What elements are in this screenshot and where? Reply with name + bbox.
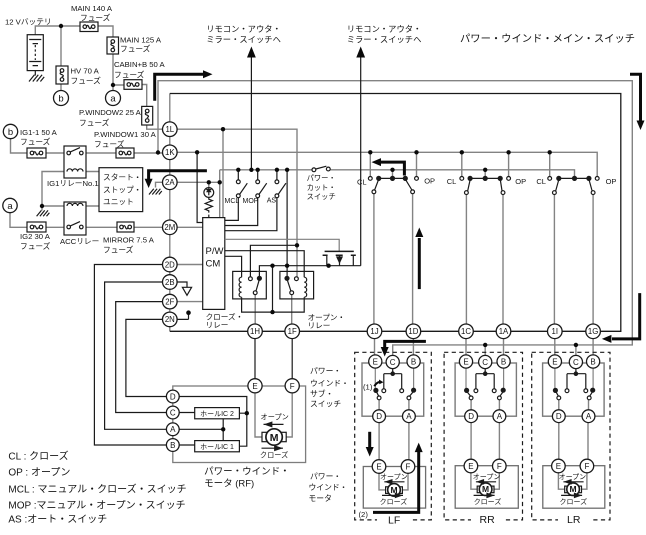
svg-text:F: F (584, 462, 589, 471)
svg-text:OP: OP (424, 177, 435, 186)
svg-text:フューズ: フューズ (71, 76, 102, 86)
svg-text:サブ・: サブ・ (310, 388, 333, 398)
svg-text:モータ: モータ (309, 494, 332, 503)
svg-text:AS :オート・スイッチ: AS :オート・スイッチ (8, 514, 107, 526)
svg-text:ホールIC 1: ホールIC 1 (200, 443, 234, 451)
svg-text:1J: 1J (370, 327, 378, 336)
svg-text:A: A (586, 412, 592, 421)
svg-text:P/W: P/W (206, 246, 224, 257)
svg-text:12 Vバッテリ: 12 Vバッテリ (5, 18, 52, 27)
svg-text:フューズ: フューズ (94, 139, 125, 149)
svg-text:B: B (170, 441, 175, 450)
svg-text:(2): (2) (359, 510, 369, 519)
svg-text:D: D (376, 412, 382, 421)
svg-text:E: E (463, 357, 468, 366)
svg-text:1D: 1D (408, 327, 418, 336)
svg-text:F: F (290, 382, 295, 391)
svg-text:B: B (501, 357, 506, 366)
svg-text:CL: CL (536, 177, 546, 186)
svg-text:HV 70 A: HV 70 A (71, 67, 100, 76)
svg-text:D: D (468, 412, 474, 421)
svg-text:ユニット: ユニット (103, 197, 134, 206)
svg-text:1I: 1I (552, 327, 559, 336)
svg-text:OP: OP (606, 177, 617, 186)
svg-text:MAIN 140 A: MAIN 140 A (71, 4, 113, 13)
svg-text:M: M (270, 432, 279, 444)
svg-text:E: E (376, 462, 381, 471)
svg-text:パワー・: パワー・ (310, 367, 341, 376)
svg-text:ストップ・: ストップ・ (103, 185, 141, 194)
svg-text:a: a (7, 201, 13, 212)
svg-text:2F: 2F (165, 297, 174, 306)
svg-text:オープン: オープン (261, 412, 289, 421)
svg-text:クローズ: クローズ (380, 497, 408, 506)
svg-text:OP: OP (515, 177, 526, 186)
svg-text:フューズ: フューズ (20, 137, 51, 147)
svg-text:リレー: リレー (206, 321, 229, 330)
svg-text:B: B (590, 357, 595, 366)
svg-text:パワー・ウインド・: パワー・ウインド・ (204, 467, 290, 478)
svg-text:LR: LR (567, 514, 581, 526)
svg-text:カット・: カット・ (307, 183, 336, 192)
svg-text:D: D (556, 412, 562, 421)
svg-text:CABIN+B 50 A: CABIN+B 50 A (114, 60, 166, 69)
svg-text:フューズ: フューズ (103, 245, 134, 255)
svg-text:CM: CM (206, 259, 221, 270)
svg-text:CL : クローズ: CL : クローズ (8, 450, 68, 463)
svg-text:パワー・: パワー・ (307, 174, 336, 183)
svg-text:CL: CL (447, 177, 457, 186)
svg-text:1G: 1G (588, 327, 598, 336)
svg-text:2A: 2A (165, 178, 175, 187)
svg-text:E: E (252, 382, 257, 391)
svg-text:RR: RR (480, 514, 496, 526)
svg-text:E: E (556, 462, 561, 471)
svg-text:C: C (170, 408, 176, 417)
svg-text:OP : オープン: OP : オープン (8, 467, 70, 479)
svg-text:スタート・: スタート・ (103, 173, 141, 182)
svg-text:b: b (8, 127, 13, 138)
svg-text:M: M (482, 484, 489, 494)
svg-text:フューズ: フューズ (80, 13, 111, 23)
svg-text:パワー・: パワー・ (310, 472, 341, 481)
svg-text:スイッチ: スイッチ (310, 399, 341, 408)
svg-text:LF: LF (388, 515, 400, 527)
svg-text:A: A (497, 412, 503, 421)
svg-text:C: C (482, 358, 488, 367)
svg-text:MCL : マニュアル・クローズ・スイッチ: MCL : マニュアル・クローズ・スイッチ (8, 483, 186, 496)
svg-text:B: B (411, 357, 416, 366)
svg-text:F: F (497, 462, 502, 471)
svg-text:ミラー・スイッチヘ: ミラー・スイッチヘ (206, 35, 281, 45)
svg-text:MOP :マニュアル・オープン・スイッチ: MOP :マニュアル・オープン・スイッチ (8, 500, 185, 512)
svg-text:1F: 1F (288, 327, 297, 336)
svg-text:フューズ: フューズ (114, 70, 145, 80)
svg-text:E: E (552, 357, 557, 366)
svg-text:A: A (406, 412, 412, 421)
svg-text:フューズ: フューズ (20, 241, 51, 251)
svg-text:クローズ: クローズ (560, 497, 588, 506)
svg-text:オープン: オープン (380, 473, 408, 481)
svg-text:クローズ: クローズ (260, 450, 288, 459)
svg-text:(1): (1) (363, 383, 373, 392)
svg-text:P.WINDOW1 30 A: P.WINDOW1 30 A (94, 130, 157, 139)
svg-text:D: D (170, 392, 176, 401)
svg-text:リレー: リレー (308, 321, 331, 330)
svg-text:2M: 2M (164, 223, 175, 232)
svg-text:IG1-1 50 A: IG1-1 50 A (20, 128, 58, 137)
svg-text:ミラー・スイッチヘ: ミラー・スイッチヘ (347, 35, 422, 45)
svg-text:1L: 1L (165, 125, 174, 134)
svg-text:2N: 2N (165, 315, 175, 324)
svg-text:ウインド・: ウインド・ (310, 379, 349, 388)
svg-text:オープン: オープン (559, 473, 587, 481)
svg-text:ACCリレー: ACCリレー (60, 237, 99, 246)
svg-text:A: A (170, 425, 176, 434)
svg-text:MCL: MCL (225, 198, 240, 205)
svg-text:b: b (58, 94, 63, 105)
svg-text:1C: 1C (461, 327, 471, 336)
svg-text:クローズ: クローズ (474, 497, 502, 506)
svg-text:E: E (373, 357, 378, 366)
svg-text:パワー・ウインド・メイン・スイッチ: パワー・ウインド・メイン・スイッチ (460, 33, 635, 45)
svg-text:F: F (406, 462, 411, 471)
svg-text:リモコン・アウタ・: リモコン・アウタ・ (347, 24, 422, 34)
svg-text:モータ (RF): モータ (RF) (204, 479, 254, 490)
svg-text:M: M (570, 484, 577, 494)
svg-text:C: C (573, 358, 579, 367)
svg-text:IG2 30 A: IG2 30 A (20, 232, 51, 241)
svg-text:1K: 1K (165, 148, 175, 157)
svg-text:MIRROR 7.5 A: MIRROR 7.5 A (103, 236, 155, 245)
svg-text:1H: 1H (250, 327, 260, 336)
svg-text:ホールIC 2: ホールIC 2 (200, 410, 234, 418)
svg-text:フューズ: フューズ (79, 118, 110, 128)
svg-text:CL: CL (357, 178, 367, 187)
svg-text:2B: 2B (165, 278, 175, 287)
svg-text:オープン: オープン (473, 473, 501, 481)
svg-text:AS: AS (267, 197, 277, 204)
svg-text:2D: 2D (165, 260, 175, 269)
svg-text:MOP: MOP (243, 198, 259, 205)
svg-text:MAIN 125 A: MAIN 125 A (120, 36, 162, 45)
svg-text:P.WINDOW2 25 A: P.WINDOW2 25 A (79, 108, 142, 117)
svg-text:1A: 1A (499, 327, 509, 336)
svg-text:E: E (468, 462, 473, 471)
svg-text:a: a (110, 94, 116, 105)
svg-text:フューズ: フューズ (120, 44, 151, 54)
svg-text:IG1リレーNo.1: IG1リレーNo.1 (47, 179, 99, 188)
svg-text:リモコン・アウタ・: リモコン・アウタ・ (206, 24, 281, 34)
svg-text:ウインド・: ウインド・ (309, 483, 348, 492)
svg-text:C: C (390, 358, 396, 367)
svg-text:M: M (390, 485, 397, 495)
svg-text:スイッチ: スイッチ (307, 192, 336, 201)
